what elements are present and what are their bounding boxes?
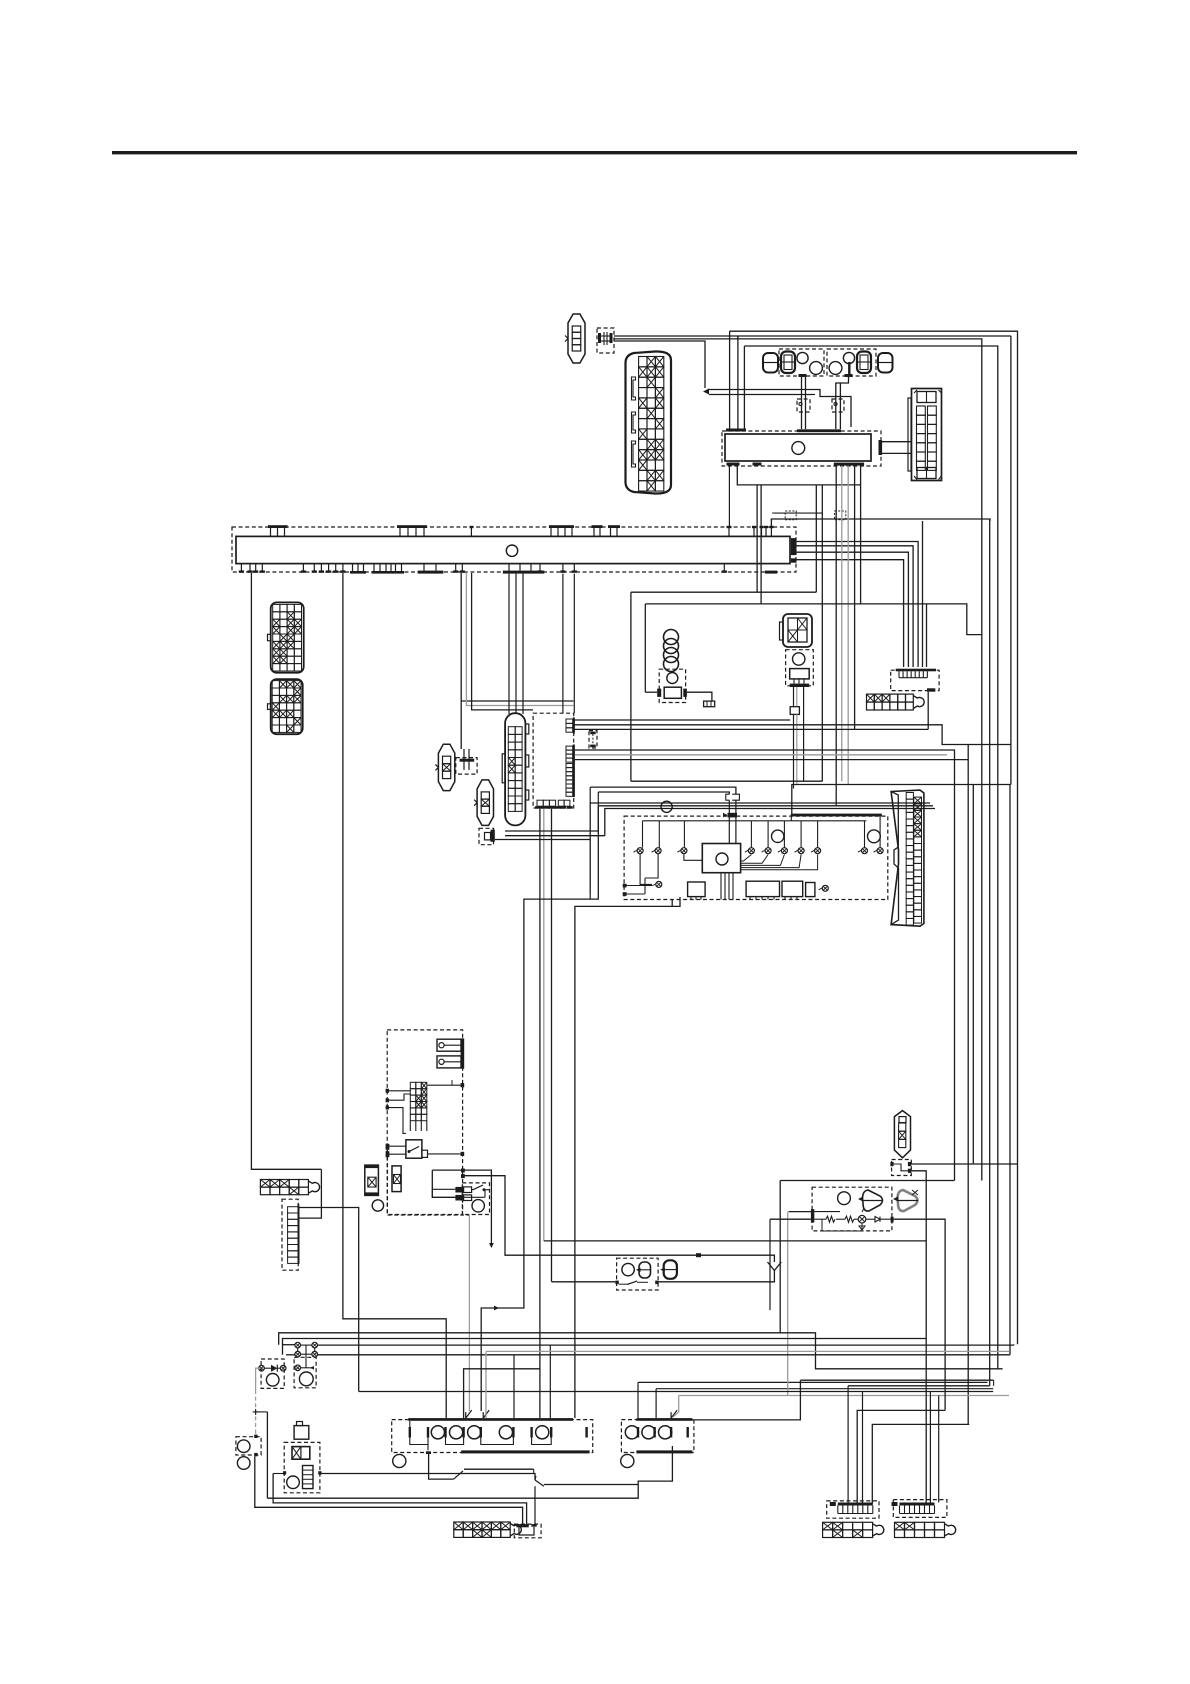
ECU top horizontals <box>631 780 822 782</box>
harness pin group top H <box>752 526 756 528</box>
wire bus 1351 <box>286 1354 295 1356</box>
sensor K tick left <box>657 689 661 697</box>
sidestand ticks <box>283 1471 286 1474</box>
wire coupler right runs top <box>573 719 791 721</box>
wire regulator top <box>780 1180 954 1182</box>
wire bus 1332 <box>279 1333 1003 1369</box>
regulator right tick <box>891 1217 894 1223</box>
wire harness bar <box>236 536 790 563</box>
wire bus right vertical x990 <box>989 519 991 1386</box>
connector ground strip <box>454 1522 463 1530</box>
wire speed sensor drop 5 <box>922 521 924 667</box>
harness pin group top D <box>549 525 574 528</box>
coil L tick below <box>426 1451 431 1454</box>
coupler pin stack 1 <box>566 719 573 723</box>
front brake pill <box>639 1262 651 1278</box>
harness bottom group bar 2 <box>373 564 375 571</box>
switch diagonal horn <box>473 1185 483 1190</box>
wire ecu to brake switch <box>481 886 598 1411</box>
sensor speed tick <box>927 688 935 691</box>
engine stop switch diagonal <box>535 1480 544 1486</box>
connector tiny dashed mid <box>589 731 597 748</box>
pickup dashed box <box>892 1160 912 1176</box>
fuse main 1 <box>437 1039 461 1051</box>
clutch circles <box>237 1440 250 1453</box>
wire relay feeds from top <box>729 331 731 428</box>
ground joint dashed <box>514 1524 541 1538</box>
ECU cpu wires <box>741 855 752 862</box>
joint dotted box low 2 <box>835 511 846 520</box>
connector pill L2 <box>477 780 493 826</box>
harness pin top C <box>470 526 474 528</box>
relay unit body <box>725 434 871 461</box>
harness bottom group bar 3 <box>395 564 397 571</box>
ECU sub box 1 <box>688 882 706 897</box>
wire left riser <box>266 1412 268 1498</box>
clutch ticks <box>254 1435 257 1438</box>
wire front brake out <box>552 1281 616 1283</box>
wire sensor left <box>644 603 646 605</box>
front brake ticks <box>615 1281 618 1285</box>
wire harness dashed outline <box>232 527 796 572</box>
wire stop switch right <box>544 1484 638 1486</box>
flasher circle <box>299 1372 313 1386</box>
sensor TPS tick <box>790 684 810 687</box>
wire bus 1368 <box>359 1391 994 1393</box>
front connector pair 2 <box>455 1195 463 1201</box>
regulator left bar <box>811 1209 814 1222</box>
wire coil R feed 1 <box>638 1381 988 1383</box>
ECU sub box 4 <box>806 883 815 897</box>
wire diode left gray <box>256 1368 259 1390</box>
dashed divider <box>387 1150 389 1215</box>
wire drops to coupler cluster <box>461 573 573 701</box>
wire sensor right drop <box>967 745 969 1425</box>
bulb oval A <box>781 352 795 374</box>
coupler bottom cells <box>537 800 543 806</box>
coil R top bar <box>636 1418 692 1421</box>
starter relay ticks left <box>386 1144 390 1150</box>
relay unit circle <box>792 442 805 455</box>
harness pin top G <box>727 526 732 528</box>
bulb circle A1 <box>797 352 808 363</box>
ECU left ticks <box>623 884 627 888</box>
wire ecu bottom left out <box>575 897 680 1418</box>
ECU top tick <box>728 813 738 818</box>
wire meter right drop <box>848 362 850 375</box>
relay starter box <box>406 1140 422 1158</box>
ECU sub box 3 <box>782 881 803 896</box>
front connector pair 1 <box>455 1187 463 1193</box>
wire fuse to right tick <box>427 1084 461 1086</box>
wire gray pair from relay <box>841 466 843 782</box>
harness right tick 2 <box>791 558 797 562</box>
coil assembly L dashed <box>392 1420 593 1453</box>
meter bulb oval left <box>763 353 778 373</box>
relay pins top-left <box>726 429 746 432</box>
wire bus 1380 <box>800 1379 993 1381</box>
coil assembly R dashed <box>621 1420 694 1453</box>
harness bottom thick bar B <box>503 571 544 574</box>
regulator resistors <box>826 1216 835 1222</box>
harness circle <box>506 545 517 556</box>
wire drop ecu feed 1 <box>815 485 817 592</box>
ECU sub box 2 <box>746 881 779 896</box>
wire ecu bottom out 2 <box>671 899 673 906</box>
wire injector runs <box>505 831 598 886</box>
harness bottom pins cluster 2 <box>302 564 304 572</box>
harness pin group top A <box>268 525 288 528</box>
wire sensor top 1 <box>631 591 816 593</box>
regulator internal link <box>814 1199 844 1212</box>
node arrow into meter feed <box>703 389 709 395</box>
wire relay bus below <box>737 466 860 485</box>
harness bottom pins right <box>539 564 541 572</box>
joint connector tiny <box>704 701 715 707</box>
connector wire-to-frame strip <box>260 1180 270 1188</box>
flasher relay pins <box>295 1342 301 1348</box>
front brake dashed box <box>617 1258 659 1290</box>
wire bus right vertical x1011 <box>737 336 739 339</box>
sensor TPS body <box>790 669 810 679</box>
joint connector box C <box>597 328 614 353</box>
wire bar-right run 3 <box>797 552 909 667</box>
wire relay to ignition switch <box>882 441 911 443</box>
connector left block 1 (AMP) <box>268 602 304 672</box>
connector ECU main right block <box>891 790 924 926</box>
wire bar-right run 2 <box>797 546 914 667</box>
ECU top-right thick bar <box>791 814 882 817</box>
harness bottom group bar 1 <box>352 564 354 571</box>
flasher dashed box <box>294 1357 316 1388</box>
joint dashed L1 <box>456 758 477 775</box>
relay pins bottom-3 <box>834 463 864 466</box>
bulb circle B2 <box>843 352 854 363</box>
wire C down to meter arrow <box>614 341 705 388</box>
wire coupler bottom drops <box>539 809 541 1418</box>
connector TPS (4P) <box>780 614 813 647</box>
handlebar circle 1 <box>372 1200 383 1211</box>
wire bus gray 1351 <box>486 1350 1009 1352</box>
wire speed sensor drop 6 <box>926 604 928 667</box>
wire sensor K left <box>645 691 657 693</box>
regulator triangle <box>863 1190 883 1211</box>
wire battery box verticals <box>451 1080 453 1085</box>
wire battery bottom drop <box>464 1176 505 1251</box>
connector fuel sender (4-cell pill) <box>568 314 585 363</box>
bulb circle B1 <box>829 362 842 375</box>
wire jog y513 <box>772 512 822 514</box>
harness bottom pins left singles <box>240 564 242 572</box>
wire meter left drop <box>801 377 803 429</box>
wire relay drop 1 <box>835 466 837 806</box>
relay pins top-mid <box>797 429 841 432</box>
spark comb 1 <box>838 1503 873 1506</box>
horn circle <box>472 1200 484 1212</box>
wire horn out right <box>464 1170 491 1243</box>
neutral box <box>292 1447 310 1460</box>
diode box dashed <box>261 1359 284 1388</box>
wire bus 1338 <box>283 1339 927 1355</box>
wire magneto tick link <box>927 692 929 730</box>
sidestand circle <box>287 1476 300 1489</box>
ECU big circle 2 <box>868 830 881 843</box>
ECU big circle 1 <box>772 830 784 842</box>
sensor K circle <box>667 673 678 684</box>
sensor TPS dashed box <box>786 650 814 686</box>
ECU pin drops <box>642 821 644 848</box>
spark comb 2 <box>900 1503 935 1506</box>
coil R circles <box>625 1426 638 1439</box>
coil R bottom bar <box>636 1450 692 1453</box>
battery thick bar <box>461 1038 465 1068</box>
wire clutch diag circuit <box>429 1454 454 1479</box>
ECU pin small right <box>822 885 828 891</box>
bulb oval B <box>857 352 871 374</box>
harness bottom pins pair <box>455 564 457 572</box>
coupler ladder <box>288 1204 300 1264</box>
wire coupler right runs mid <box>575 750 955 1181</box>
sensor TPS circle <box>793 653 805 665</box>
wire sensor K right <box>687 692 712 701</box>
wire relay drop 5 <box>860 466 862 604</box>
wire meter feed double run <box>709 390 851 428</box>
ECU dashed box <box>624 816 888 899</box>
sidestand dashed box <box>284 1442 320 1492</box>
wire pickup out 2 <box>911 1171 926 1241</box>
joint connector ECU top <box>726 794 740 800</box>
horn dashed box <box>462 1183 489 1215</box>
wire spark drops group1 <box>857 1410 945 1503</box>
connector pickup pill <box>894 1111 910 1158</box>
bulb circle A2 <box>810 362 823 375</box>
meter dashed box 2 <box>827 349 876 376</box>
ECU internal top bus <box>643 820 867 822</box>
connector handlebar sw bracket 2 <box>392 1166 401 1192</box>
fuse block grid <box>410 1082 427 1131</box>
horn small <box>294 1426 309 1440</box>
coil L circles <box>431 1426 444 1439</box>
wire spark drops group2 <box>929 1392 931 1503</box>
harness right tick 1 <box>791 538 797 555</box>
connector ignition switch block <box>908 389 942 481</box>
wire bus 1344 <box>283 1344 295 1346</box>
wire coil R feed 2 <box>656 1388 993 1390</box>
harness bottom thick bar C <box>765 571 777 574</box>
wire top feed y520 <box>771 519 990 527</box>
wire regulator out right <box>894 1219 946 1410</box>
wire ticks to fuse block <box>389 1090 410 1092</box>
wire injector feed box <box>479 828 494 844</box>
wire to front brake switch <box>505 1251 774 1262</box>
ECU pin circles <box>637 848 643 854</box>
connector spark pill 2 <box>895 1522 905 1530</box>
ECU circle top-left <box>661 801 672 812</box>
meter dashed box 1 <box>779 349 824 376</box>
coil L internal wires <box>409 1421 411 1427</box>
harness pin group top B <box>397 525 427 528</box>
wire sensor top 2 <box>645 604 982 635</box>
coil L bottom bar <box>461 1450 589 1453</box>
coil R pins <box>637 1427 639 1438</box>
coil bulb stack <box>664 630 679 645</box>
meter bulb oval right <box>878 353 893 373</box>
wire starter relay out <box>422 1150 428 1157</box>
coupler ladder dashed box <box>282 1199 298 1270</box>
harness bottom thick bar A <box>418 571 444 574</box>
coupler pin stack 2 <box>566 746 573 750</box>
harness pin group top F <box>608 525 620 528</box>
regulator circle <box>838 1192 851 1205</box>
wire drop sensor feed 1 <box>756 485 758 592</box>
front brake pill 2 <box>664 1260 677 1279</box>
joint dashed box D2 <box>832 399 844 412</box>
wire sidestand runs <box>273 1473 283 1475</box>
wire pill L1 top <box>460 701 462 749</box>
wire coil pin 463 feed <box>464 1369 540 1418</box>
connector oblong 12P <box>502 713 529 825</box>
coupler dashed tall box <box>533 713 574 808</box>
horn circuit outline <box>432 1169 464 1171</box>
sensor speed dashed box <box>891 670 939 690</box>
spark comb 1 dashed <box>827 1501 879 1518</box>
connector spark pill 1 <box>823 1522 833 1530</box>
battery left ticks <box>386 1089 389 1093</box>
flasher pin circle <box>295 1365 301 1371</box>
wire bottom left long <box>267 1446 672 1498</box>
front brake circle <box>622 1263 634 1275</box>
battery small striped <box>303 1466 314 1489</box>
wire C to right bus <box>614 335 1011 337</box>
wire relay drop 4 <box>854 466 856 730</box>
joint connector TPS <box>790 707 799 715</box>
spark comb 2 dashed <box>893 1500 947 1518</box>
relay unit dashed outline <box>722 431 881 466</box>
regulator dashed box <box>812 1187 892 1231</box>
wire regulator left feeds <box>789 1211 811 1213</box>
wire coil R right link <box>680 1380 800 1420</box>
coupler bottom tick <box>567 806 573 809</box>
coil R circle below <box>621 1454 634 1467</box>
coil L pins <box>409 1427 411 1438</box>
page header rule <box>112 151 1077 154</box>
sensor K dashed box <box>659 669 685 702</box>
wire right drop x973 <box>972 785 974 1165</box>
wire coil R drops <box>637 1382 639 1418</box>
connector main harness (26P block) <box>626 351 672 493</box>
coupler bottom bar <box>535 806 566 809</box>
wire drop sensor feed 2 <box>760 485 762 604</box>
wire TPS drops <box>793 687 795 707</box>
ECU pin small left <box>656 881 662 887</box>
coil L top bar <box>408 1418 573 1421</box>
relay pins bottom-1 <box>727 463 740 466</box>
sensor K tick right <box>683 689 687 697</box>
wire coil L drops top <box>466 1410 472 1418</box>
relay pins bottom-2 <box>753 463 762 466</box>
regulator diode <box>875 1217 880 1222</box>
fuse main 2 <box>437 1056 461 1068</box>
joint dashed box D1 <box>797 399 810 412</box>
wire bus right vertical x998 <box>744 346 997 1369</box>
wire bar-right run 4 <box>797 560 904 667</box>
connector pill L1 <box>438 744 454 790</box>
diode pins <box>259 1365 265 1371</box>
wire drops to oblong connector <box>508 574 510 714</box>
ECU bottom bundle <box>720 873 722 900</box>
harness pin group top E <box>592 525 603 528</box>
connector magneto strip <box>867 694 875 702</box>
connector handlebar sw bracket 1 <box>365 1165 379 1195</box>
ground joint bar <box>516 1524 528 1527</box>
battery dashed box <box>387 1030 462 1215</box>
connector left block 2 (AMP) <box>268 679 303 734</box>
cross tick <box>253 1411 259 1413</box>
joint dotted box low 1 <box>785 511 796 520</box>
wire bus right vertical x982 <box>614 339 982 1181</box>
ground arrow V <box>768 1262 782 1271</box>
harness pin group top I <box>764 526 768 528</box>
coupler pin stack 3 <box>566 764 573 768</box>
regulator scr <box>858 1215 866 1223</box>
clutch switch dashed box <box>236 1437 261 1455</box>
coil L circle below <box>393 1454 406 1467</box>
wire coil R feed gray <box>679 1395 1009 1397</box>
ECU CPU box <box>702 844 740 873</box>
wire left vertical x343 <box>343 573 446 1418</box>
wire joint feeds <box>590 787 736 794</box>
wire bar-right run 1 <box>797 542 919 668</box>
meter pin tick right <box>845 374 853 377</box>
relay right tick <box>879 440 883 455</box>
wire ecu left wires <box>605 809 935 836</box>
diode circle <box>266 1374 279 1387</box>
wire pickup out 1 <box>911 1163 1017 1165</box>
wire tps spark feed <box>544 1241 926 1503</box>
magneto triangle <box>898 1190 918 1211</box>
battery right ticks <box>461 1169 465 1173</box>
wire ladder to right <box>299 1208 358 1392</box>
harness bottom pin single right <box>723 564 725 572</box>
sensor speed bar <box>896 669 936 672</box>
wire drop ecu feed 2 <box>821 485 823 781</box>
meter pin tick left <box>799 374 807 377</box>
sensor K body <box>664 687 681 698</box>
wire left vertical x251 <box>251 573 321 1169</box>
wire bus right vertical x1017 <box>730 331 1018 1344</box>
